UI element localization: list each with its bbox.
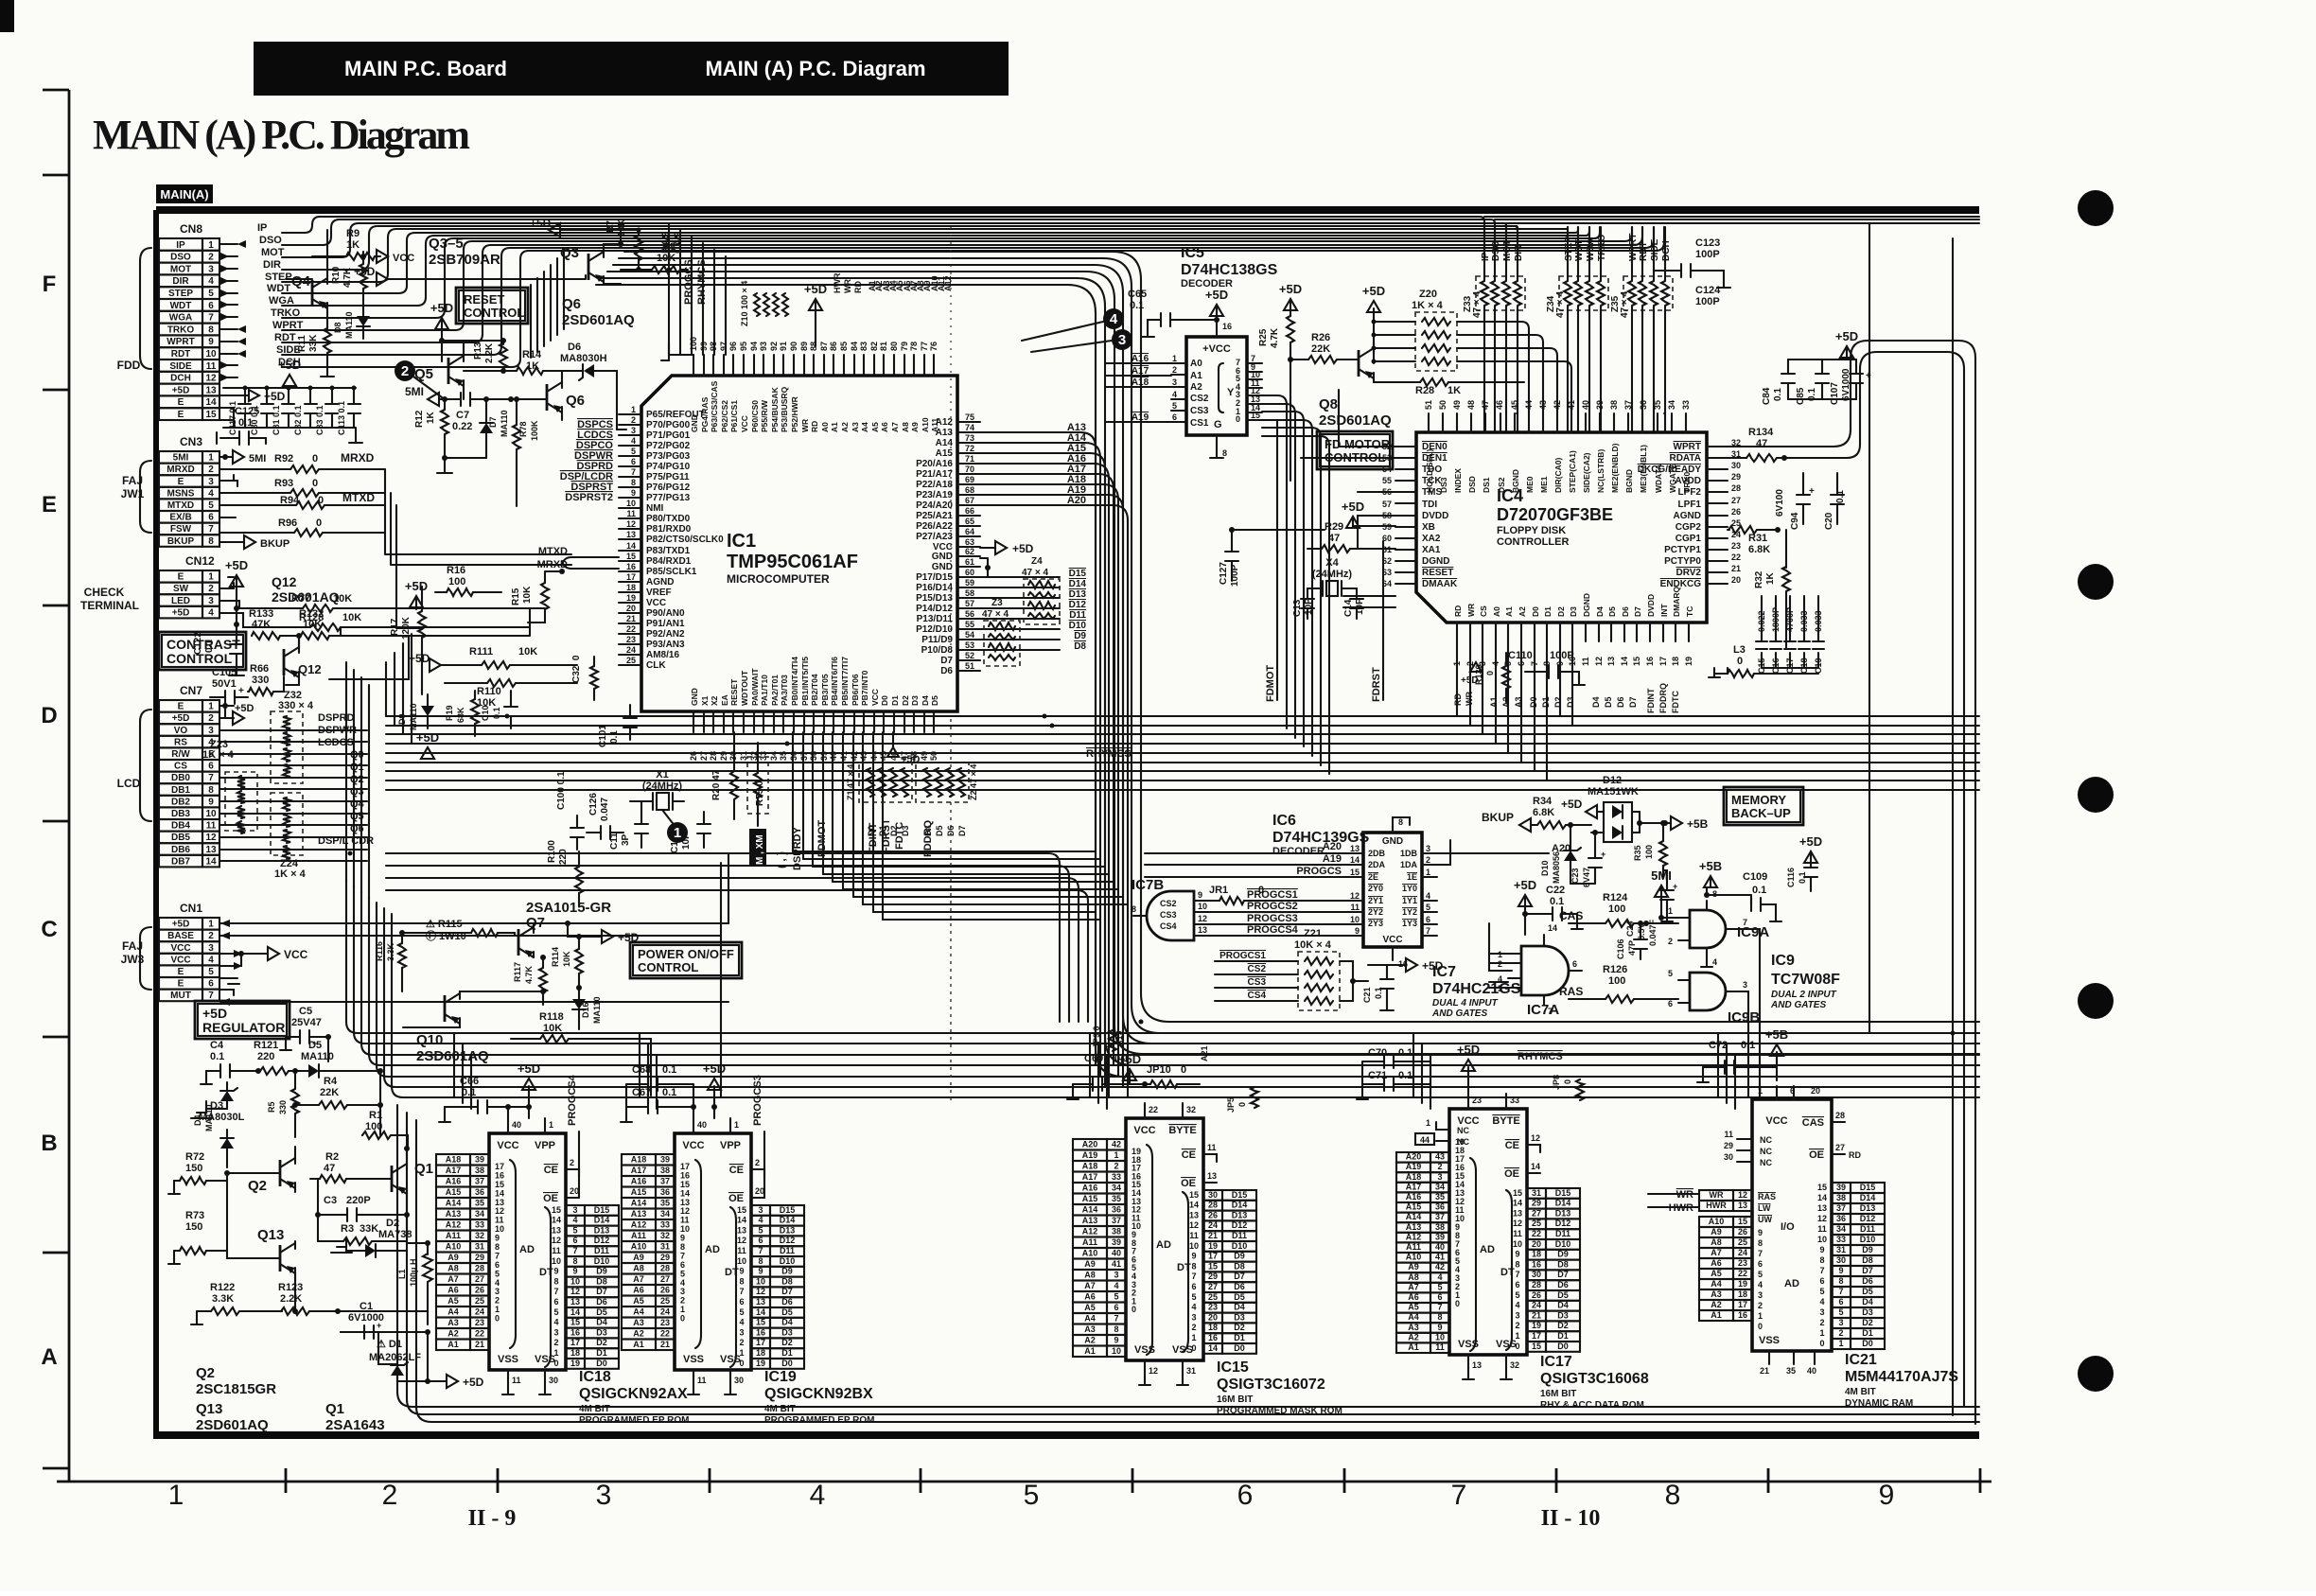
svg-text:RHYMCS: RHYMCS [696,259,708,305]
svg-text:D5: D5 [1557,1290,1569,1300]
svg-text:DGND: DGND [1582,593,1591,617]
resistor R126 100 RAS [1559,964,1678,1003]
svg-text:A19: A19 [1082,1150,1098,1160]
svg-text:2: 2 [208,931,214,941]
svg-text:CHECK: CHECK [84,586,125,599]
svg-text:A4: A4 [633,1307,644,1317]
resistor R116 3.3K [375,933,406,991]
svg-text:49: 49 [920,751,929,761]
svg-text:10K: 10K [522,586,533,604]
svg-text:TMP95C061AF: TMP95C061AF [727,552,858,572]
svg-text:79: 79 [900,342,909,351]
svg-text:+5D: +5D [1514,878,1536,892]
svg-text:AGND: AGND [1674,511,1701,521]
svg-text:D3: D3 [1862,1307,1873,1317]
svg-text:A17: A17 [1082,1172,1098,1182]
svg-text:8: 8 [1114,1324,1118,1334]
svg-text:RHYMCS: RHYMCS [1086,748,1132,760]
svg-text:QSIGT3C16072: QSIGT3C16072 [1217,1377,1325,1393]
svg-text:5: 5 [1114,1292,1118,1302]
svg-text:JP9 0: JP9 0 [1092,1026,1101,1048]
svg-text:Q1: Q1 [414,1161,433,1177]
resistor R132 [299,608,386,640]
capacitor C105 [210,667,248,704]
svg-text:1K: 1K [346,239,360,251]
svg-text:32: 32 [1186,1105,1196,1114]
svg-text:+: + [377,1321,381,1330]
svg-text:ME0: ME0 [1525,476,1535,493]
svg-text:40: 40 [512,1120,521,1130]
svg-text:M5M44170AJ7S: M5M44170AJ7S [1845,1369,1958,1385]
resistor R118 10K [511,1011,651,1043]
svg-text:68: 68 [965,485,974,495]
svg-text:Q3–5: Q3–5 [429,236,464,252]
svg-text:11: 11 [1817,1224,1827,1234]
svg-text:C85: C85 [1796,387,1806,405]
resistor R77 [220,593,545,612]
svg-text:D7: D7 [957,825,967,836]
svg-text:TDI: TDI [1422,500,1437,510]
resistor network Z3 47x4 [982,598,1020,666]
wire junction dots [348,228,1956,1036]
svg-text:CS4: CS4 [1160,921,1177,931]
svg-text:85: 85 [839,342,849,351]
svg-text:A15: A15 [631,1187,647,1197]
svg-text:G: G [1214,419,1222,430]
svg-text:A3: A3 [1711,1289,1722,1299]
svg-text:47: 47 [1756,438,1767,449]
svg-text:P22/A18: P22/A18 [916,480,953,490]
diode D2 MA738 [331,1218,412,1257]
svg-text:A2: A2 [1084,1336,1096,1345]
svg-text:MRXD: MRXD [167,465,194,475]
node BKUP arrow [220,535,289,550]
resistor R94 [220,491,385,509]
svg-text:10: 10 [1435,1332,1445,1342]
svg-text:16: 16 [756,1327,765,1337]
svg-text:A4: A4 [860,422,869,432]
svg-text:15: 15 [1632,657,1641,666]
diode D1 MA2062LF [341,1332,484,1389]
svg-text:1Y0: 1Y0 [1402,884,1417,893]
svg-text:8: 8 [1838,1276,1843,1286]
svg-text:330: 330 [278,1100,288,1114]
svg-text:24: 24 [1738,1248,1747,1257]
svg-text:2: 2 [1191,1323,1196,1332]
svg-text:39: 39 [819,751,829,761]
svg-text:10: 10 [737,1256,746,1266]
svg-text:27: 27 [475,1274,484,1284]
svg-text:+5D: +5D [518,1061,540,1076]
svg-text:PROGCS4: PROGCS4 [567,1074,578,1126]
svg-text:R122: R122 [210,1282,235,1293]
svg-text:D3: D3 [1557,1310,1569,1320]
svg-text:F: F [43,272,57,297]
svg-text:35: 35 [1435,1192,1445,1201]
svg-text:D12: D12 [1860,1214,1876,1223]
svg-text:2SD601AQ: 2SD601AQ [272,589,340,605]
svg-text:E: E [178,979,184,990]
svg-text:E: E [178,702,184,712]
node +5D at CN12 [225,558,248,624]
svg-text:BYTE: BYTE [1492,1115,1519,1127]
svg-text:TRK0: TRK0 [1682,472,1692,493]
svg-text:14: 14 [1208,1343,1218,1353]
node +5D near IC4 [1342,500,1395,528]
svg-text:A9: A9 [910,422,920,432]
svg-text:100: 100 [1608,975,1625,987]
svg-text:100P: 100P [1550,650,1574,661]
svg-text:CN8: CN8 [180,222,202,236]
bottom ruler [57,1468,1991,1531]
svg-text:D14: D14 [1860,1193,1876,1202]
resistor R100 220 [547,840,583,906]
svg-text:R15: R15 [511,588,521,605]
svg-text:7: 7 [1451,1480,1467,1511]
svg-text:53: 53 [965,640,974,650]
svg-text:4: 4 [1114,1281,1118,1290]
svg-text:80: 80 [889,342,899,351]
svg-text:A8: A8 [447,1264,459,1273]
svg-text:VSS: VSS [720,1354,741,1365]
svg-text:0: 0 [553,1359,558,1368]
svg-text:D13: D13 [594,1225,610,1235]
svg-text:A10: A10 [1709,1217,1725,1226]
svg-text:CS2: CS2 [1190,394,1209,404]
svg-text:AD: AD [519,1244,535,1255]
FDD signal fanout wires [220,222,304,428]
svg-text:Q12: Q12 [298,662,322,676]
svg-text:21: 21 [475,1340,484,1349]
svg-text:11: 11 [1207,1143,1217,1152]
svg-text:4: 4 [1758,1280,1763,1289]
svg-text:7: 7 [631,467,636,477]
svg-text:+5D: +5D [278,358,301,372]
svg-text:A18: A18 [446,1155,462,1165]
svg-text:0: 0 [1455,1299,1460,1308]
header bar: MAIN P.C. Board / MAIN (A) P.C. Diagram [254,42,1009,96]
svg-text:DS1: DS1 [1482,477,1491,493]
svg-text:0: 0 [1485,671,1495,675]
svg-text:DIR: DIR [263,259,281,271]
svg-text:A2: A2 [1190,382,1202,393]
svg-text:CS2: CS2 [1248,964,1267,974]
svg-text:5: 5 [208,967,214,977]
svg-text:NC: NC [1760,1147,1772,1156]
svg-text:7: 7 [680,1251,685,1260]
svg-text:20: 20 [1532,1239,1541,1249]
mask ROM IC15 QSIGT3C16072 [1126,1103,1217,1385]
svg-text:27: 27 [1208,1282,1218,1291]
svg-text:P90/AN0: P90/AN0 [646,608,685,619]
svg-text:7: 7 [208,524,214,535]
svg-text:13: 13 [1198,925,1207,935]
svg-text:1: 1 [208,572,214,583]
svg-text:D5: D5 [596,1307,607,1317]
data ROM IC17 QSIGT3C16068 [1449,1094,1540,1379]
svg-text:25: 25 [475,1296,484,1306]
svg-text:QSIGCKN92BX: QSIGCKN92BX [764,1386,873,1402]
svg-text:40: 40 [1807,1366,1816,1376]
svg-text:MICROCOMPUTER: MICROCOMPUTER [727,572,830,586]
svg-text:39: 39 [1112,1237,1121,1247]
capacitor C11 3P [609,801,648,850]
svg-text:BKUP: BKUP [260,538,289,550]
svg-text:D7: D7 [1633,606,1642,617]
svg-text:A7: A7 [1084,1281,1096,1290]
svg-text:10K: 10K [518,646,537,658]
svg-text:31: 31 [660,1242,670,1252]
resistor R110 10K [445,679,577,709]
svg-text:36: 36 [1435,1202,1445,1212]
wire memory chip feeds [454,1033,1735,1109]
svg-text:8: 8 [572,1256,577,1266]
svg-text:D1: D1 [1541,696,1551,708]
svg-text:INDEX: INDEX [1453,468,1463,493]
svg-text:QSIGCKN92AX: QSIGCKN92AX [579,1386,688,1402]
svg-text:41: 41 [1112,1259,1121,1269]
svg-text:89: 89 [799,342,809,351]
svg-text:5.5V: 5.5V [1637,922,1646,940]
svg-text:2: 2 [382,1480,398,1511]
svg-text:E: E [178,477,184,487]
PROGCS3 label [751,1075,764,1198]
label POWER ON/OFF CONTROL [630,942,742,978]
resistor network Z21 10Kx4 [1215,928,1368,1010]
svg-text:C100 0.1: C100 0.1 [556,771,567,810]
resistor network Z20 1Kx4 [1362,284,1571,413]
svg-text:7: 7 [1426,926,1430,936]
svg-text:DECODER: DECODER [1272,846,1325,857]
svg-text:P93/AN3: P93/AN3 [646,640,685,650]
svg-text:+5D: +5D [1279,282,1302,296]
svg-text:6: 6 [1819,1276,1824,1286]
svg-text:DB7: DB7 [171,856,190,867]
svg-text:7: 7 [1838,1287,1843,1296]
resistor network Z2 47x4 [916,763,978,836]
svg-text:9: 9 [1879,1480,1895,1511]
svg-text:DS3: DS3 [1439,477,1448,493]
svg-text:Q6: Q6 [566,393,585,409]
svg-text:40: 40 [1581,400,1590,410]
svg-text:4M BIT: 4M BIT [1845,1387,1876,1397]
svg-text:11: 11 [697,1376,707,1385]
svg-text:VCC: VCC [682,1140,704,1151]
svg-text:47: 47 [324,1163,335,1174]
svg-text:D8: D8 [1557,1259,1569,1269]
svg-text:BASE: BASE [167,931,194,941]
svg-text:26: 26 [689,751,698,761]
svg-text:P23/A19: P23/A19 [916,490,953,500]
resistor R25 4.7K [1258,282,1302,481]
svg-text:13: 13 [1738,1201,1747,1210]
svg-text:A13: A13 [1406,1222,1422,1232]
svg-text:12: 12 [756,1287,765,1296]
svg-text:4: 4 [208,607,214,618]
svg-text:R13: R13 [473,342,483,360]
svg-text:2: 2 [1114,1162,1118,1171]
svg-text:P52/HWR: P52/HWR [790,396,799,432]
svg-text:1: 1 [1172,354,1177,363]
svg-text:X1: X1 [656,769,668,780]
svg-text:2: 2 [1498,959,1502,969]
svg-text:CONTROL: CONTROL [638,960,698,974]
wire FDD left risers [282,233,286,367]
svg-text:29: 29 [475,1253,484,1262]
svg-text:+5D: +5D [1835,329,1858,343]
svg-text:GND: GND [1382,836,1403,847]
crystal X4 24MHz [1307,557,1357,596]
svg-text:1Y2: 1Y2 [1402,907,1417,917]
svg-text:42: 42 [1553,400,1562,410]
svg-text:220: 220 [257,1051,274,1062]
svg-text:5: 5 [495,1269,500,1278]
svg-text:34: 34 [660,1209,670,1219]
resistor network Z24 1Kx4 [271,793,307,880]
svg-text:D12: D12 [1555,1219,1571,1228]
transistor Q6 label [562,296,635,328]
svg-text:6: 6 [1172,412,1177,422]
svg-text:23: 23 [1738,1258,1747,1268]
svg-text:3: 3 [553,1327,558,1337]
svg-text:10: 10 [570,1276,580,1286]
svg-text:12: 12 [552,1236,561,1245]
svg-text:7: 7 [1515,1270,1519,1279]
svg-text:37: 37 [1435,1212,1445,1221]
svg-text:D2: D2 [596,1338,607,1347]
svg-text:P53/BUSRQ: P53/BUSRQ [780,386,789,432]
svg-text:4.7K: 4.7K [342,267,353,288]
svg-text:IC7: IC7 [1432,964,1456,980]
svg-text:47 × 4: 47 × 4 [1472,290,1483,318]
svg-text:9: 9 [1555,661,1565,666]
svg-text:10: 10 [756,1276,765,1286]
svg-text:25: 25 [1208,1292,1218,1302]
svg-text:WR: WR [1466,604,1476,617]
floppy disk controller IC4 D72070GF3BE [1416,432,1707,623]
resistor R10 4.7K [331,252,367,302]
svg-text:D3: D3 [596,1327,607,1337]
resistor R134 47 [1728,427,1833,462]
transistor Q3 [429,236,623,284]
svg-text:D1: D1 [1234,1333,1245,1342]
svg-text:1Y3: 1Y3 [1402,919,1417,928]
svg-text:18: 18 [1532,1250,1541,1259]
svg-text:6: 6 [1515,1280,1519,1289]
svg-text:100P: 100P [1695,249,1720,260]
svg-text:VSS: VSS [1759,1335,1780,1346]
svg-text:84: 84 [850,342,859,351]
svg-text:61: 61 [965,557,974,567]
svg-text:WDT: WDT [170,301,192,311]
svg-text:A15: A15 [446,1187,462,1197]
svg-text:57: 57 [965,599,974,608]
svg-text:+5D: +5D [463,1376,484,1389]
svg-text:PROGRAMMED MASK ROM: PROGRAMMED MASK ROM [1217,1406,1342,1416]
svg-text:D4: D4 [1591,696,1601,708]
svg-text:C4: C4 [210,1040,224,1051]
svg-text:R92: R92 [274,453,293,465]
svg-text:P24/A20: P24/A20 [916,500,953,511]
capacitor C22 0.1 [1514,878,1583,935]
svg-text:R35: R35 [1633,845,1642,861]
svg-text:Q2: Q2 [350,774,364,785]
svg-text:A1: A1 [447,1340,459,1349]
svg-text:DB3: DB3 [171,809,190,819]
svg-text:41: 41 [1435,1253,1445,1262]
svg-text:SIDE: SIDE [169,361,192,372]
svg-text:9: 9 [208,797,214,807]
svg-text:P76/PG12: P76/PG12 [646,482,691,493]
svg-text:D10: D10 [1232,1241,1248,1251]
svg-text:C10: C10 [481,705,490,721]
svg-text:0.1: 0.1 [1398,1047,1412,1059]
svg-text:VSS: VSS [1496,1339,1517,1350]
svg-text:MA151WK: MA151WK [1588,786,1639,798]
svg-text:9: 9 [553,1267,558,1276]
svg-text:D3: D3 [781,1327,793,1337]
svg-text:47: 47 [1328,533,1340,544]
svg-text:39: 39 [475,1155,484,1165]
svg-text:C106: C106 [1616,938,1625,959]
svg-text:21: 21 [626,614,636,623]
svg-text:0: 0 [1758,1322,1763,1331]
svg-text:DB4: DB4 [171,821,190,832]
resistor R17 120K [390,587,426,694]
svg-text:OE: OE [543,1193,558,1204]
svg-text:R28: R28 [1415,385,1434,396]
svg-text:120K: 120K [401,616,412,640]
svg-text:1: 1 [1668,906,1673,916]
svg-text:D2: D2 [1557,1321,1569,1330]
svg-text:A0: A0 [1492,606,1501,617]
svg-text:A5: A5 [447,1296,459,1306]
svg-text:D13: D13 [1069,589,1087,600]
svg-text:D4: D4 [921,695,930,706]
svg-text:0: 0 [312,478,318,489]
svg-text:3: 3 [1191,1312,1196,1322]
svg-text:OE: OE [728,1193,744,1204]
svg-text:22K: 22K [1311,343,1330,355]
svg-text:34: 34 [475,1209,484,1219]
transistor Q2 [224,1147,295,1194]
svg-text:A2: A2 [840,422,850,432]
svg-text:27: 27 [1835,1143,1845,1152]
svg-text:TRKO: TRKO [1597,234,1607,261]
svg-text:16: 16 [626,562,636,571]
svg-text:Q1: Q1 [350,762,364,773]
svg-text:5: 5 [553,1307,558,1317]
svg-text:2E: 2E [1368,872,1378,882]
svg-text:2SB709AR: 2SB709AR [429,252,500,268]
svg-text:22K: 22K [320,1087,339,1098]
svg-text:JP5: JP5 [1226,1097,1236,1113]
svg-text:1: 1 [208,453,214,464]
svg-text:DMARQ: DMARQ [1672,587,1681,617]
label RESET CONTROL [456,288,528,324]
svg-text:10: 10 [552,1256,561,1266]
svg-text:CE: CE [544,1165,558,1176]
svg-text:10K × 4: 10K × 4 [1294,939,1332,951]
svg-text:PROGCS4: PROGCS4 [1247,924,1299,936]
svg-text:4.7K: 4.7K [1270,327,1280,348]
svg-text:NC(LSTRB): NC(LSTRB) [1596,449,1605,493]
svg-text:RS: RS [174,737,187,747]
label FD MOTOR CONTROL [1317,431,1393,469]
svg-text:+5D: +5D [405,579,428,593]
svg-text:0.047F: 0.047F [1648,919,1658,946]
labels FDMOT FDINT FDRST FDTC FDDRQ [816,818,934,857]
